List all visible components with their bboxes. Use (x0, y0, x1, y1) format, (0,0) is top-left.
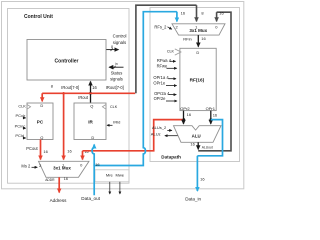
wire red from IR junction down to address mux input 1 (63, 93, 65, 159)
svg-text:in: in (115, 62, 118, 66)
svg-text:Address: Address (50, 198, 68, 203)
svg-text:16: 16 (67, 149, 72, 154)
svg-text:16: 16 (95, 162, 100, 167)
svg-text:PCclr: PCclr (16, 113, 26, 118)
svg-text:CLK: CLK (18, 104, 26, 108)
wire Mre output (109, 182, 111, 194)
PC clock triangle pin (18, 104, 30, 109)
PCld control input (15, 133, 25, 138)
svg-text:D: D (40, 103, 43, 108)
svg-text:IRout[7-0]: IRout[7-0] (106, 85, 124, 90)
svg-text:Controller: Controller (55, 58, 79, 64)
svg-text:16: 16 (92, 85, 97, 90)
svg-text:3x1 Mux: 3x1 Mux (189, 28, 207, 33)
svg-text:ALUz: ALUz (151, 131, 161, 136)
svg-text:Control: Control (113, 33, 127, 38)
svg-text:PC: PC (37, 119, 44, 124)
Control signals output arrow (8 bits) (106, 45, 118, 51)
svg-text:Mre: Mre (106, 172, 114, 177)
RFwe write enable input (157, 63, 177, 68)
node red bus junction at IR column (62, 92, 65, 95)
svg-text:RFwe: RFwe (157, 63, 168, 68)
svg-text:CLK: CLK (167, 50, 175, 54)
svg-text:IRout: IRout (78, 95, 89, 100)
PCinc control input (15, 123, 26, 128)
wire blue OPr1 bus to Data_in port (197, 120, 222, 156)
OPr2e read enable input (154, 96, 177, 101)
wire red branch into PC.D (41, 93, 43, 101)
svg-text:8: 8 (111, 45, 113, 49)
svg-text:ADDR: ADDR (45, 178, 55, 182)
svg-text:ALUs_2: ALUs_2 (152, 125, 167, 130)
svg-text:D: D (91, 135, 94, 140)
Control signals text label (113, 33, 127, 45)
svg-text:Status: Status (111, 70, 123, 75)
svg-text:16: 16 (181, 10, 186, 15)
wire RFin from mux M1 to RF.D (197, 35, 199, 47)
PCclr control input (16, 113, 26, 118)
svg-text:OPr1a 4: OPr1a 4 (153, 75, 169, 80)
wire blue data bus: RF mux input 2, IR.D feed, Data_out run (94, 12, 177, 196)
PC register block (27, 103, 53, 140)
svg-text:Control Unit: Control Unit (24, 14, 53, 20)
svg-text:Datapath: Datapath (161, 155, 181, 160)
svg-text:16: 16 (219, 11, 224, 16)
svg-text:IR: IR (88, 119, 93, 124)
svg-text:CLK: CLK (110, 105, 118, 109)
address mux M2 (3x1 Mux) (38, 161, 89, 177)
RF clock triangle pin (167, 49, 181, 55)
OPr2a read address input (4 bits) (154, 91, 176, 96)
RF input mux M1 (3x1 Mux) (172, 24, 225, 35)
Datapath block box (150, 8, 240, 162)
wire ALUout from ALU to feedback bus (197, 142, 199, 149)
svg-text:D: D (196, 50, 199, 55)
svg-text:PCinc: PCinc (15, 123, 26, 128)
node IRout junction (89, 92, 92, 95)
svg-text:Q: Q (90, 103, 93, 108)
Controller block (27, 39, 106, 80)
svg-text:Q: Q (40, 135, 43, 140)
svg-text:RFs_2: RFs_2 (154, 25, 167, 30)
svg-text:RFin: RFin (183, 37, 191, 42)
svg-text:Mwe: Mwe (115, 172, 124, 177)
svg-text:OPr1e: OPr1e (153, 81, 166, 86)
wire OPr1 from RF down to ALU input (210, 111, 212, 124)
Status signals text label (110, 70, 123, 81)
CPU boundary frame (1, 1, 243, 188)
wire red PCout from PC.Q to address mux input 2 (39, 139, 41, 159)
svg-text:OPr2: OPr2 (180, 106, 190, 111)
wire red bus from OPr2 node to address mux input 0 (82, 120, 183, 151)
wire dark ALU feedback bus to RF mux input 0 (198, 12, 231, 151)
svg-text:RFwa 4: RFwa 4 (157, 58, 172, 63)
wire dark IR operand bus to RF mux input 1 (8 bits) (136, 5, 197, 93)
svg-text:16: 16 (213, 113, 218, 118)
OPr1a read address input (4 bits) (153, 75, 176, 80)
svg-text:PCld: PCld (15, 133, 24, 138)
ALUs select input (2 bits) (152, 125, 172, 130)
svg-text:16: 16 (200, 176, 205, 181)
svg-text:signals: signals (113, 40, 126, 45)
wire red IR branch bus horizontal (42, 92, 135, 94)
wire IRout bus up into Controller (90, 81, 92, 93)
svg-text:IRout[7-0]: IRout[7-0] (61, 85, 79, 90)
svg-text:RF(16): RF(16) (190, 77, 205, 82)
svg-text:signals: signals (110, 76, 123, 81)
svg-text:16: 16 (187, 112, 192, 117)
svg-text:ALU: ALU (192, 134, 201, 139)
svg-text:Data_in: Data_in (185, 196, 201, 201)
wire blue drop to Data_in port (196, 156, 198, 191)
wire Mwe output (119, 182, 121, 194)
svg-text:PCout: PCout (26, 146, 38, 151)
svg-text:16: 16 (43, 149, 48, 154)
OPr1e read enable input (153, 81, 176, 86)
Status signals input arrow (m bits) (109, 62, 123, 69)
IR register block (74, 103, 106, 140)
node OPr2 junction (182, 118, 185, 121)
svg-text:OPr1: OPr1 (206, 106, 216, 111)
Ms mux select input (2 bits) (21, 163, 37, 168)
wire blue branch up into IR.D (92, 144, 94, 165)
svg-text:ALUout: ALUout (202, 146, 213, 150)
Mre Mwe output box (95, 170, 129, 182)
wire red Address output to port (58, 177, 60, 192)
IRld control input (107, 119, 120, 125)
svg-text:16: 16 (190, 142, 195, 147)
svg-text:Ms 2: Ms 2 (21, 163, 31, 168)
svg-text:16: 16 (64, 177, 68, 181)
wire OPr2 from RF down to ALU input (182, 111, 184, 124)
svg-text:16: 16 (201, 36, 206, 41)
RF register file block (180, 48, 216, 110)
svg-text:OPr2e: OPr2e (154, 96, 167, 101)
wire red drop into address mux input 0 (81, 151, 83, 160)
Control Unit block box (7, 8, 129, 183)
RFs mux select input (2 bits) (154, 25, 171, 30)
IR clock triangle pin (102, 104, 117, 109)
ALU block (173, 126, 221, 143)
wire blue arrow into RF mux input 2 (176, 12, 178, 22)
node OPr1 junction (209, 118, 212, 121)
svg-text:Data_out: Data_out (81, 196, 100, 201)
RFwa write address input (4 bits) (157, 58, 176, 63)
wire from IR.Q up to IRout junction (90, 93, 92, 103)
ALUz zero flag output (151, 131, 178, 136)
svg-text:IRld: IRld (113, 119, 120, 124)
